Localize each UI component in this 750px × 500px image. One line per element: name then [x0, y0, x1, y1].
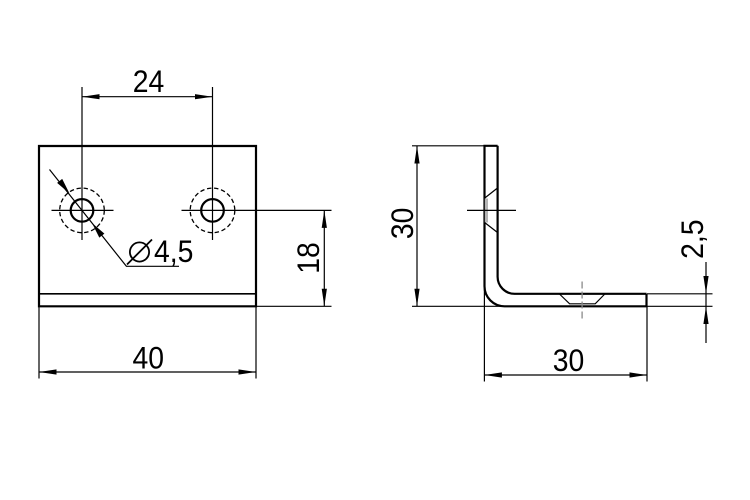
side view hole upper countersink diagonal	[485, 188, 498, 198]
dimension 2,5 line	[705, 262, 707, 343]
dimension 30 height top arrow	[414, 146, 419, 164]
dimension 30 length left extension line	[483, 287, 485, 382]
dimension 30 length right arrow	[630, 372, 648, 377]
front view plate outline	[39, 146, 256, 306]
side view hole centerline	[467, 209, 516, 211]
hole H1 inner circle	[71, 199, 94, 222]
front view bend line	[39, 293, 256, 295]
diameter symbol of label 4,5	[130, 242, 149, 261]
hole H2 vertical centerline / extension for dim 24	[212, 87, 214, 240]
dimension 30 length left arrow	[484, 372, 502, 377]
hole leader lower arrow	[92, 223, 104, 238]
dimension 40 left extension line	[38, 306, 40, 378]
svg-text:40: 40	[132, 341, 164, 376]
dimension 18 top arrow	[322, 210, 327, 228]
svg-text:4,5: 4,5	[154, 235, 193, 270]
dimension 30 (side height) line	[416, 146, 418, 306]
side view L-profile inner contour	[498, 146, 647, 294]
dimension 2,5 upper arrow	[703, 276, 708, 294]
dimension 40 right extension line	[255, 306, 257, 378]
dimension 18 line	[323, 210, 325, 306]
side view L-profile outer contour	[485, 146, 647, 306]
svg-text:18: 18	[292, 242, 327, 274]
hole leader upper arrow	[57, 179, 69, 194]
side view bottom hole centerline (dashed)	[581, 282, 583, 322]
dimension 30 (leg length) line	[484, 374, 647, 376]
side view bottom countersunk hole profile	[560, 294, 605, 304]
dimension 40 line	[39, 371, 256, 373]
hole leader line	[50, 170, 180, 267]
dimension 40 left arrow	[39, 369, 57, 374]
dimension 2,5 bottom extension line	[647, 305, 713, 307]
svg-text:2,5: 2,5	[676, 220, 711, 259]
svg-text:24: 24	[133, 65, 165, 100]
hole H1 countersink dashed circle	[60, 188, 105, 233]
dimension 40 right arrow	[239, 369, 257, 374]
dimension 24 line	[82, 96, 213, 98]
hole H2 horizontal centerline merged with extension for dim 18	[182, 209, 332, 211]
dimension 2,5 lower arrow	[703, 307, 708, 325]
dimension 30 height bottom arrow	[414, 289, 419, 307]
dimension 2,5 top extension line	[647, 293, 713, 295]
dimension 30 height top extension line	[412, 145, 484, 147]
svg-text:30: 30	[385, 208, 420, 240]
dimension 18 bottom arrow	[322, 289, 327, 307]
dimension 30 length right extension line	[646, 306, 648, 381]
dimension 18 bottom extension line	[256, 305, 332, 307]
dimension 24 right arrow	[195, 94, 213, 99]
dimension 24 left arrow	[82, 94, 100, 99]
side view hole bore shading	[485, 199, 488, 223]
side view hole lower countersink diagonal	[485, 223, 498, 233]
dimension 30 height bottom extension line	[412, 305, 503, 307]
hole H1 horizontal centerline	[52, 209, 114, 211]
svg-text:30: 30	[553, 344, 585, 379]
hole H1 vertical centerline / extension for dim 24	[81, 87, 83, 240]
hole H2 countersink dashed circle	[190, 188, 235, 233]
hole H2 inner circle	[201, 199, 224, 222]
